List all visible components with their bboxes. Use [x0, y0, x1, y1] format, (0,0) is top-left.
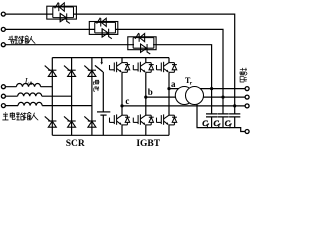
wire: bypass phase 2 to output node b [115, 29, 223, 97]
static bypass switch box S2 [89, 22, 118, 35]
thyristor V3 [64, 66, 76, 77]
wire: bypass phase 3 to output node a [153, 45, 212, 89]
output terminal a [245, 87, 249, 91]
transformer Tr secondary winding [186, 87, 204, 105]
thyristor V5 [84, 66, 96, 77]
main input terminal 3 [1, 104, 5, 108]
node b junction dot [144, 96, 147, 99]
bypass junction dot at node c [233, 104, 236, 107]
bypass input terminal 2 [1, 27, 5, 31]
battery lead wire [102, 72, 104, 135]
label 输出 (output), rotated [240, 68, 247, 76]
filter capacitor Cf3 plates [229, 114, 240, 117]
DC bus positive rail [52, 57, 169, 59]
inductor L0 phase 3 [18, 102, 42, 105]
node a junction dot [167, 87, 170, 90]
output terminal b [245, 95, 249, 99]
wire: main phase 3 [5, 105, 92, 107]
wire: output phase a [169, 88, 245, 90]
svg-text:a: a [171, 79, 176, 89]
label 旁路输入 (bypass input) [8, 36, 35, 44]
inverter leg 1 emitter to negative rail [121, 125, 123, 135]
filter capacitor Cf3 lead [234, 106, 236, 114]
bypass input terminal 1 [1, 12, 5, 16]
static bypass switch box S1 [47, 6, 77, 19]
rectifier leg 3 wire [91, 58, 93, 136]
main input terminal 2 [1, 94, 5, 98]
filter capacitor Cf1 plates [206, 114, 217, 117]
bypass input terminal 3 [1, 43, 5, 47]
anti-parallel thyristor pair VT2 [95, 18, 116, 39]
wire: bypass phase 1 to output node c [73, 14, 234, 106]
thyristor V4 [45, 116, 57, 127]
neutral bus wire [197, 128, 246, 132]
thyristor V6 [64, 116, 76, 127]
IGBT module Q1 (top leg 1) [110, 62, 130, 72]
thyristor V1 [45, 66, 57, 77]
wire: output phase b [146, 96, 245, 98]
filter capacitor Cf2 lead [222, 97, 224, 114]
battery switch stub [101, 58, 103, 62]
battery switch contact arrow [100, 62, 103, 64]
svg-text:IGBT: IGBT [136, 139, 160, 149]
wire: main phase 1 [5, 86, 52, 88]
inverter leg 1 wire (collector link) [121, 58, 123, 63]
inverter leg 2 emitter to node b [145, 72, 147, 97]
wire: bypass phase 2 input [5, 28, 95, 30]
svg-text:c: c [125, 96, 129, 106]
bypass junction dot at node b [221, 96, 224, 99]
inverter leg 2 lower collector link [145, 97, 147, 115]
anti-parallel thyristor pair VT3 [133, 33, 154, 54]
wire: main phase 2 [5, 95, 71, 97]
inverter leg 1 lower collector link [121, 106, 123, 115]
svg-text:SCR: SCR [66, 139, 85, 149]
inverter leg 2 wire (collector link) [145, 58, 147, 63]
filter capacitor Cf2 bottom lead [222, 117, 224, 128]
battery switch blade [95, 65, 103, 72]
wire: bypass phase 3 input [5, 44, 134, 46]
inductor L0 phase 1 [16, 83, 40, 86]
output terminal neutral [245, 130, 249, 134]
bypass junction dot at node a [210, 87, 213, 90]
inverter leg 3 wire (collector link) [168, 58, 170, 63]
main input terminal 1 [1, 85, 5, 89]
IGBT module Q6 (bottom leg 3) [157, 114, 177, 125]
DC bus negative rail [52, 134, 169, 136]
IGBT module Q2 (bottom leg 1) [110, 114, 130, 125]
battery E plates [97, 111, 110, 113]
inverter leg 3 emitter to negative rail [168, 125, 170, 135]
transformer Tr primary winding [175, 87, 193, 105]
IGBT module Q4 (bottom leg 2) [133, 114, 153, 125]
static bypass switch box S3 [128, 37, 156, 50]
rectifier leg 2 wire [71, 58, 73, 136]
inductor L0 phase 2 [18, 93, 42, 96]
thyristor V2 [84, 116, 96, 127]
filter capacitor Cf1 bottom lead [211, 117, 213, 128]
filter capacitor Cf3 bottom lead [234, 117, 236, 128]
inverter leg 1 emitter to node c [121, 72, 123, 106]
inverter leg 3 lower collector link [168, 89, 170, 116]
rectifier leg 1 wire [51, 58, 53, 136]
filter capacitor Cf2 plates [218, 114, 229, 117]
inverter leg 2 emitter to negative rail [145, 125, 147, 135]
IGBT module Q5 (top leg 3) [157, 62, 177, 72]
label 主电路输入 (main circuit input) [2, 112, 38, 120]
filter capacitor Cf1 lead [211, 89, 213, 114]
IGBT module Q3 (top leg 2) [133, 62, 153, 72]
anti-parallel thyristor pair VT1 [53, 2, 74, 23]
output terminal c [245, 104, 249, 108]
svg-text:b: b [148, 87, 153, 97]
wire: output phase c [122, 105, 245, 107]
inverter leg 3 emitter to node a [168, 72, 170, 88]
label 电池 (battery), rotated [93, 80, 99, 84]
node c junction dot [120, 104, 123, 107]
wire: bypass phase 1 input [5, 13, 53, 15]
transformer neutral lead [196, 104, 198, 128]
